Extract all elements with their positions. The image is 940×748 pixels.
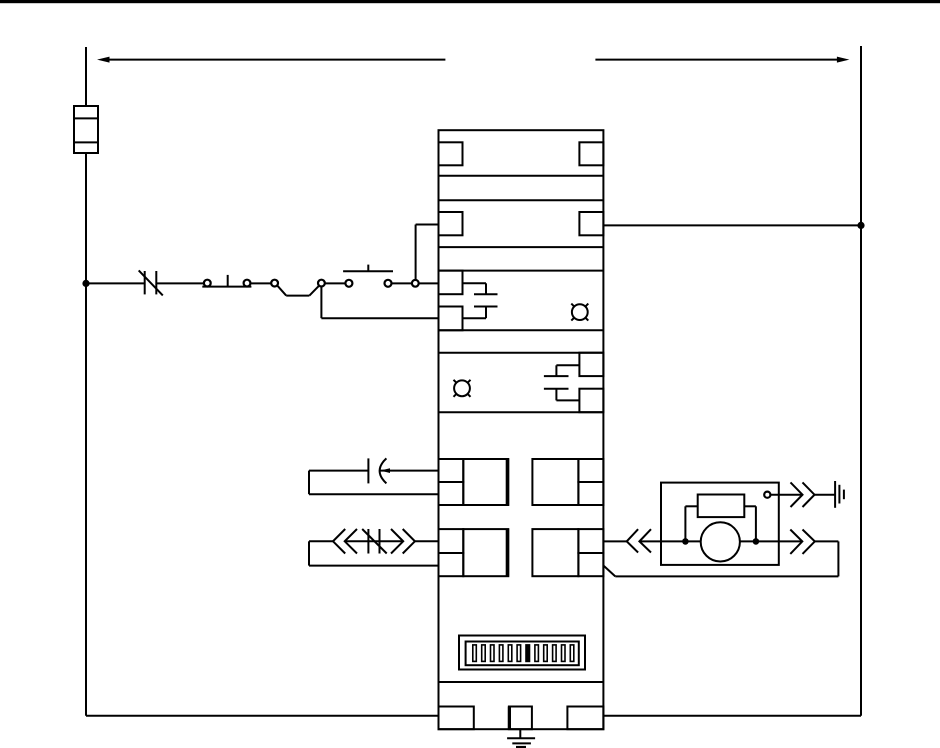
node: right bus junction: [857, 222, 864, 229]
display DS3: [459, 636, 585, 670]
connector J2 (row6 double chevron): [309, 529, 439, 566]
terminal T4 (section2 right): [579, 212, 603, 235]
module row6 left: [439, 529, 509, 576]
bottom terminal left: [439, 707, 474, 730]
dimension arrow right: [595, 57, 849, 63]
pushbutton S1 (NC): [202, 275, 251, 287]
terminal T1 (section1 left): [439, 142, 463, 165]
module row5 right: [532, 459, 603, 505]
knife switch S2: [271, 280, 325, 296]
wire: [325, 282, 346, 284]
motor unit box: [661, 483, 779, 565]
connector J4 (upper double chevron): [791, 482, 836, 507]
node: motor left: [682, 538, 689, 545]
bottom terminal center: [509, 707, 532, 730]
wire: resistor branch left: [685, 506, 697, 541]
node: left bus junction: [82, 280, 89, 287]
pushbutton S3 (NO): [343, 265, 393, 287]
wire: resistor branch right: [744, 506, 756, 541]
node circle and wires to controller: [412, 225, 439, 287]
ground (signal, right): [835, 481, 844, 508]
wire: bottom return left: [86, 715, 439, 717]
left supply bus: [85, 47, 87, 716]
dimension arrow left: [97, 57, 445, 63]
wire: [392, 282, 412, 284]
right supply bus: [860, 46, 862, 716]
wire: motor right: [740, 540, 802, 542]
indicator lamp DS2 (section4): [454, 380, 471, 397]
wire: T4 to right bus: [603, 224, 861, 226]
terminal T3 (section2 left): [439, 212, 463, 235]
connector J5 (lower double chevron) and return wire: [603, 530, 838, 577]
wire and connector J3 (chevrons to motor unit): [603, 529, 700, 552]
connector J1 (row5 plug with capacitor plates): [309, 458, 439, 494]
wire: [250, 282, 271, 284]
wire: breaker to pushbutton: [156, 282, 204, 284]
ground (earth, bottom): [507, 729, 535, 748]
circuit breaker CB1: [139, 270, 163, 295]
module row5 left: [439, 459, 509, 505]
motor M1: [701, 522, 740, 561]
relay contact K1 (section3): [439, 271, 498, 331]
node: motor right: [753, 538, 760, 545]
controller block U1 outline: [439, 130, 604, 729]
wire: switch branch down to controller: [321, 286, 438, 318]
wire: bottom return right: [603, 715, 861, 717]
controller internal dividers: [439, 176, 604, 682]
resistor R1: [698, 495, 745, 518]
fuse F1: [74, 106, 98, 153]
relay contact K2 (section4): [544, 353, 604, 413]
terminal circle and wire to connector J4: [764, 492, 802, 498]
wire: bus to breaker: [86, 282, 145, 284]
indicator lamp DS1 (section3): [571, 304, 588, 321]
page header bar: [0, 0, 940, 3]
bottom terminal right: [567, 707, 603, 730]
module row6 right: [532, 529, 603, 576]
terminal T2 (section1 right): [579, 142, 603, 165]
